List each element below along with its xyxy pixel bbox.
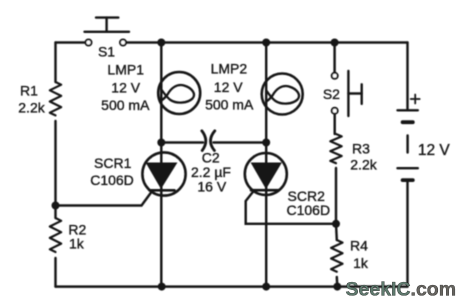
svg-text:R1: R1 xyxy=(20,83,38,99)
svg-text:12 V: 12 V xyxy=(214,79,243,95)
svg-text:S1: S1 xyxy=(98,43,115,59)
svg-text:1k: 1k xyxy=(69,236,85,252)
svg-text:SCR1: SCR1 xyxy=(94,155,132,171)
node: top bus / LMP1 branch junction xyxy=(157,39,165,47)
resistor R2 xyxy=(50,218,61,252)
svg-text:C106D: C106D xyxy=(287,202,331,218)
battery B1 12V xyxy=(398,95,420,181)
svg-text:R3: R3 xyxy=(352,141,370,157)
node: bottom bus / R4 junction xyxy=(333,283,341,291)
resistor R3 xyxy=(330,134,341,163)
resistor R4 xyxy=(331,240,342,272)
svg-text:12 V: 12 V xyxy=(111,80,140,96)
SCR Q2 (SCR2) xyxy=(245,153,287,195)
wire right rail upper (corner to battery +) xyxy=(406,43,408,110)
node: SCR2 anode / C2 junction xyxy=(262,139,270,147)
wire R3 bottom to gate junction xyxy=(335,168,337,224)
lamp LMP1 xyxy=(158,72,200,114)
wire SCR2 gate to R3/R4 junction xyxy=(246,191,336,224)
node: top bus / S2 branch junction xyxy=(331,39,339,47)
pushbutton switch S2 xyxy=(332,43,362,135)
node: R3/R4 / SCR2 gate junction xyxy=(332,220,340,228)
svg-text:12 V: 12 V xyxy=(418,142,451,159)
wire top bus left (to S1) xyxy=(56,41,86,43)
node: left rail / SCR1 gate junction xyxy=(52,202,60,210)
pushbutton switch S1 xyxy=(85,18,130,46)
lamp LMP2 xyxy=(262,74,303,115)
wire gate junction to R4 top xyxy=(335,224,338,240)
svg-text:2.2k: 2.2k xyxy=(18,100,45,116)
wire R4 bottom to bottom bus xyxy=(336,277,339,287)
svg-text:SeekIC.com: SeekIC.com xyxy=(346,279,457,301)
svg-text:2.2k: 2.2k xyxy=(350,157,377,173)
resistor R1 xyxy=(50,82,61,115)
wire bottom bus xyxy=(56,285,408,287)
svg-text:C106D: C106D xyxy=(90,172,134,188)
node: bottom bus / SCR1 cathode xyxy=(158,283,166,291)
svg-text:LMP2: LMP2 xyxy=(211,61,248,77)
svg-text:500 mA: 500 mA xyxy=(205,96,254,112)
wire right rail lower (battery - to bottom bus) xyxy=(406,181,408,287)
svg-text:R4: R4 xyxy=(350,237,368,253)
wire SCR1 gate to R2 top junction xyxy=(56,191,153,206)
svg-text:500 mA: 500 mA xyxy=(101,97,150,113)
node: SCR1 anode / C2 junction xyxy=(157,139,165,147)
wire left rail middle (R1 to R2) xyxy=(54,121,56,218)
capacitor C2 xyxy=(161,131,266,151)
svg-text:S2: S2 xyxy=(323,86,340,102)
wire LMP2/SCR2 branch (top bus through lamp and SCR2 to bottom bus) xyxy=(265,43,267,287)
svg-text:LMP1: LMP1 xyxy=(107,62,144,78)
svg-text:1k: 1k xyxy=(353,255,369,271)
svg-text:16 V: 16 V xyxy=(197,178,226,194)
node: top bus / LMP2 branch junction xyxy=(262,39,270,47)
wire left rail lower (R2 to bottom corner) xyxy=(54,258,56,287)
wire top bus right (S1 to battery corner) xyxy=(126,41,407,43)
SCR Q1 (SCR1) xyxy=(142,152,185,195)
node: bottom bus / SCR2 cathode xyxy=(262,283,270,291)
wire left rail upper (top corner to R1) xyxy=(54,43,56,83)
wire LMP1/SCR1 branch (top bus through lamp and SCR1 to bottom bus) xyxy=(160,43,162,287)
